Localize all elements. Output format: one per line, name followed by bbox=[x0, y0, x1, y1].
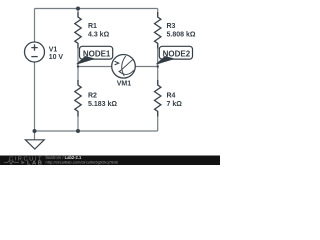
voltmeter VM1 bbox=[112, 55, 136, 79]
svg-text:LAB: LAB bbox=[27, 160, 43, 165]
svg-text:R3: R3 bbox=[167, 23, 176, 30]
wire: top horizontal net bbox=[35, 8, 158, 10]
wire: R3 branch leads bbox=[157, 9, 159, 67]
svg-text:R2: R2 bbox=[88, 93, 97, 100]
svg-text:5.808 kΩ: 5.808 kΩ bbox=[167, 32, 196, 39]
ground bbox=[25, 140, 44, 149]
wire: R4 branch leads bbox=[157, 67, 159, 132]
wire: left branch upper (top corner to V1 top) bbox=[34, 9, 36, 43]
watermark bar bbox=[0, 156, 220, 166]
wire: VM1 right terminal to NODE2 bbox=[135, 66, 158, 68]
junction: top net / R1 bbox=[76, 7, 80, 11]
junction: bottom net / ground bbox=[33, 129, 37, 133]
svg-text:VM1: VM1 bbox=[117, 81, 132, 88]
svg-text:R1: R1 bbox=[88, 23, 97, 30]
svg-text:4.3 kΩ: 4.3 kΩ bbox=[88, 32, 110, 39]
wire: NODE1 to VM1 left terminal bbox=[78, 66, 112, 68]
wire: ground stem bbox=[34, 131, 36, 140]
wire: bottom horizontal net bbox=[35, 130, 158, 132]
svg-text:NODE1: NODE1 bbox=[83, 49, 111, 58]
junction: NODE1 tie point bbox=[77, 65, 79, 67]
resistor R2 bbox=[75, 80, 81, 117]
resistor R1 bbox=[75, 12, 81, 49]
svg-text:R4: R4 bbox=[167, 93, 176, 100]
svg-text:V1: V1 bbox=[49, 47, 58, 54]
label R2 value bbox=[88, 93, 117, 109]
node NODE2 flag bbox=[157, 46, 193, 64]
node NODE1 flag bbox=[77, 46, 113, 64]
svg-text:7 kΩ: 7 kΩ bbox=[167, 101, 183, 108]
wire: left branch lower (V1 bottom to bottom net) bbox=[34, 62, 36, 131]
svg-text:NODE2: NODE2 bbox=[163, 49, 191, 58]
label R1 value bbox=[88, 23, 110, 39]
svg-text:http://circuitlab.com/circuit/: http://circuitlab.com/circuit/e5g92kq76d… bbox=[46, 159, 119, 164]
resistor R4 bbox=[155, 80, 161, 117]
svg-text:10 V: 10 V bbox=[49, 54, 64, 61]
resistor R3 bbox=[155, 12, 161, 49]
label V1 value bbox=[49, 47, 64, 62]
voltage source V1 bbox=[25, 42, 45, 62]
watermark logo CIRCUITLAB bbox=[4, 157, 43, 167]
wire: R1 branch leads bbox=[77, 9, 79, 67]
watermark text bbox=[46, 155, 119, 165]
svg-text:5.183 kΩ: 5.183 kΩ bbox=[88, 101, 117, 108]
label R3 value bbox=[167, 23, 196, 39]
junction: bottom net / R2 bbox=[76, 129, 80, 133]
label R4 value bbox=[167, 93, 183, 109]
junction: NODE2 tie point bbox=[157, 65, 159, 67]
wire: R2 branch leads bbox=[77, 67, 79, 132]
